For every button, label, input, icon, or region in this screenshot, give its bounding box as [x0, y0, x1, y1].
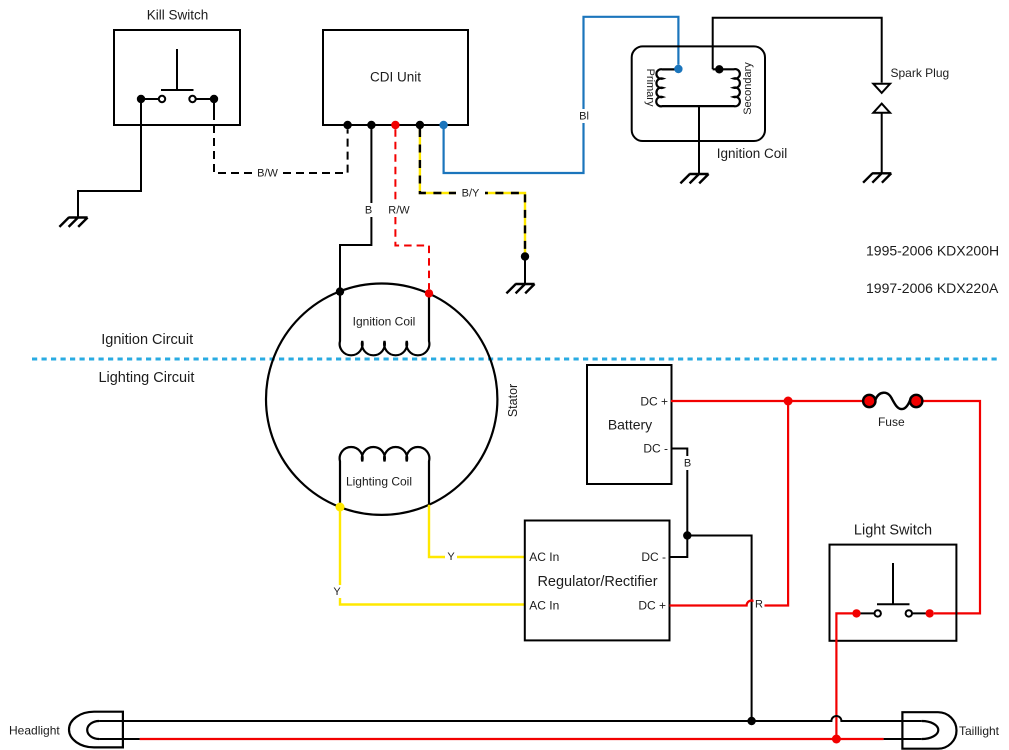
wire red bottom headlight to taillight	[140, 738, 884, 740]
wire black stub taillight bottom	[884, 738, 922, 740]
svg-text:DC +: DC +	[640, 395, 668, 409]
label Bl	[577, 109, 592, 123]
svg-text:B/W: B/W	[257, 168, 278, 180]
ground B/Y	[506, 284, 534, 293]
ground spark plug	[863, 173, 891, 182]
wire ignition coil center to ground	[698, 106, 700, 173]
svg-text:Ignition Coil: Ignition Coil	[353, 315, 416, 329]
primary winding T1	[656, 69, 699, 106]
wire B/Y black dashes	[420, 125, 525, 253]
svg-text:R/W: R/W	[388, 205, 410, 217]
kill switch contact circle right	[189, 96, 195, 102]
wire Bl blue CDI to ignition coil primary	[444, 17, 679, 173]
node black line junction	[747, 717, 755, 725]
wire black headlight to taillight with hop	[99, 716, 922, 721]
spark plug gap top	[873, 84, 890, 93]
svg-text:Lighting Coil: Lighting Coil	[346, 475, 412, 489]
svg-text:Bl: Bl	[579, 111, 589, 123]
label Y right	[445, 550, 457, 563]
headlight bulb	[87, 721, 99, 739]
node B/Y ground junction	[521, 252, 529, 260]
node stator lighting yellow	[336, 503, 345, 512]
wire black stub headlight bottom	[99, 738, 140, 740]
svg-text:1997-2006 KDX220A: 1997-2006 KDX220A	[866, 280, 999, 296]
svg-text:Secondary: Secondary	[742, 62, 754, 115]
wire battery DC- to regulator	[670, 449, 688, 558]
kill switch plunger	[161, 49, 194, 90]
svg-text:AC In: AC In	[529, 599, 559, 613]
label B/W	[253, 166, 282, 180]
fuse F1 element	[876, 393, 911, 409]
svg-text:DC -: DC -	[641, 550, 666, 564]
wire kill switch to ground	[78, 99, 141, 217]
svg-text:Primary: Primary	[644, 69, 656, 107]
light switch contact circle left	[875, 610, 881, 616]
light switch contact link left	[857, 612, 875, 614]
node DC- junction	[683, 531, 691, 539]
svg-text:Lighting Circuit: Lighting Circuit	[98, 370, 194, 386]
svg-text:Taillight: Taillight	[959, 724, 1000, 738]
wire Y left stator to regulator	[340, 507, 525, 605]
node light switch right red	[926, 609, 934, 617]
regulator rectifier U2 box	[525, 521, 670, 641]
stator circle	[266, 284, 497, 515]
wire Y right stator to regulator	[429, 505, 525, 557]
svg-text:Spark Plug: Spark Plug	[891, 66, 950, 80]
CDI pin node 2	[367, 121, 375, 129]
node stator ignition left	[336, 287, 344, 295]
wire spark plug to ground	[881, 113, 883, 173]
svg-text:Y: Y	[447, 551, 455, 563]
wire R/W dashed CDI to stator	[395, 129, 429, 289]
svg-text:Stator: Stator	[506, 384, 520, 417]
node stator ignition right red	[425, 289, 433, 297]
svg-text:DC +: DC +	[638, 599, 666, 613]
kill switch node left	[137, 95, 145, 103]
label R/W	[384, 203, 414, 217]
wire B/W dashed kill switch to CDI	[214, 112, 348, 173]
svg-text:Fuse: Fuse	[878, 415, 905, 429]
label R	[754, 598, 765, 611]
CDI unit U1 box	[323, 30, 468, 125]
svg-text:Ignition Coil: Ignition Coil	[717, 146, 788, 161]
battery B1 box	[587, 365, 672, 484]
light switch contact circle right	[906, 610, 912, 616]
node fuse junction red	[784, 397, 793, 406]
CDI pin node 4	[416, 121, 424, 129]
headlight housing	[69, 712, 123, 748]
kill switch contact link left	[141, 98, 159, 100]
ground ignition coil	[680, 174, 708, 183]
svg-text:R: R	[755, 599, 763, 611]
kill switch contact link right	[196, 98, 214, 100]
kill switch node right	[210, 95, 218, 103]
secondary winding T1	[699, 69, 740, 106]
stator lighting coil winding	[340, 447, 430, 507]
node primary blue	[674, 65, 682, 73]
wire kill switch stub	[213, 99, 215, 112]
CDI pin node 5 blue	[439, 121, 447, 129]
wire red battery DC+ to fuse to light switch	[671, 401, 980, 613]
stator ignition coil winding	[340, 292, 430, 356]
kill switch contact circle left	[159, 96, 165, 102]
taillight housing	[902, 712, 956, 749]
svg-text:B: B	[684, 458, 691, 470]
light switch contact link right	[912, 612, 930, 614]
wire secondary to spark plug	[713, 18, 882, 83]
svg-text:Regulator/Rectifier: Regulator/Rectifier	[537, 574, 657, 590]
CDI pin node 1	[343, 121, 351, 129]
svg-text:Ignition Circuit: Ignition Circuit	[101, 332, 193, 348]
svg-text:CDI Unit: CDI Unit	[370, 70, 421, 85]
wire DC+ red regulator to fuse junction with hop	[670, 401, 789, 606]
svg-text:B: B	[365, 205, 372, 217]
CDI pin node 3 red	[391, 121, 399, 129]
node secondary black	[715, 65, 723, 73]
node red bottom junction	[832, 735, 841, 744]
svg-text:1995-2006 KDX200H: 1995-2006 KDX200H	[866, 242, 999, 258]
svg-text:Kill Switch: Kill Switch	[147, 8, 209, 23]
svg-text:DC -: DC -	[643, 442, 668, 456]
label B battery	[681, 456, 694, 470]
svg-text:Headlight: Headlight	[9, 724, 60, 738]
node light switch left red	[852, 609, 860, 617]
light switch plunger	[877, 563, 910, 604]
wire B/Y yellow base	[420, 125, 525, 253]
wire red light switch to taillight	[836, 613, 856, 739]
svg-text:Y: Y	[333, 586, 341, 598]
label Y left	[331, 585, 343, 598]
ignition coil T1 box	[632, 46, 765, 141]
wire B CDI to stator	[340, 125, 371, 292]
taillight bulb	[922, 721, 939, 739]
fuse F1 right cap	[910, 395, 922, 407]
label B/Y	[456, 187, 485, 200]
light switch SW2 box	[830, 545, 957, 641]
kill switch SW1 box	[114, 30, 240, 125]
svg-text:Light Switch: Light Switch	[854, 522, 932, 538]
fuse F1 left cap	[863, 395, 875, 407]
wire B/Y junction to ground	[524, 257, 526, 284]
svg-text:AC In: AC In	[529, 550, 559, 564]
divider dashed cyan	[32, 358, 999, 361]
svg-text:B/Y: B/Y	[462, 188, 480, 200]
spark plug gap bottom	[873, 104, 890, 113]
wire DC- branch to taillight line	[687, 536, 751, 719]
ground kill switch	[59, 218, 87, 227]
svg-text:Battery: Battery	[608, 417, 652, 433]
label B	[362, 203, 375, 217]
